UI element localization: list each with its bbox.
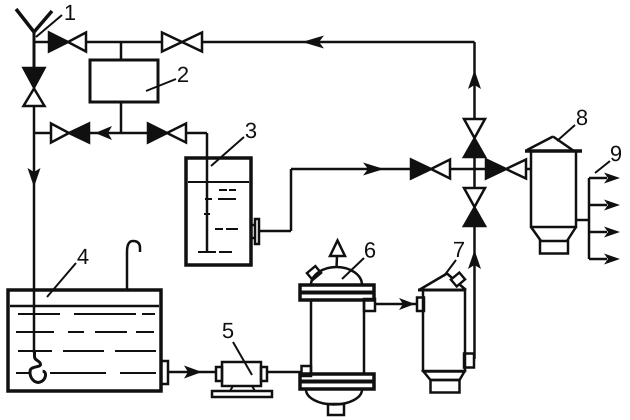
wire left vertical main bbox=[33, 42, 36, 353]
tank 3 bbox=[186, 158, 251, 265]
flow arrow right on middle pipe bbox=[363, 163, 384, 176]
svg-text:8: 8 bbox=[576, 105, 588, 130]
label 3 leader bbox=[211, 137, 244, 166]
svg-text:4: 4 bbox=[77, 244, 89, 269]
valve V7 (solid left half) at cyclone inlet bbox=[486, 160, 526, 179]
wire box2 top stub bbox=[120, 42, 123, 60]
label 2 leader bbox=[146, 79, 176, 91]
svg-text:1: 1 bbox=[64, 0, 76, 25]
wire pump to vessel 6 bbox=[267, 371, 301, 374]
tank 3 dashed level marks bbox=[198, 190, 238, 252]
label 5 leader bbox=[233, 342, 252, 375]
vessel 6 bbox=[300, 241, 375, 416]
wire tank4 to pump bbox=[168, 371, 216, 374]
tank 4 bbox=[8, 290, 161, 391]
flow arrow right to vessel7 bbox=[399, 298, 415, 310]
wire cyclone outlet stub bbox=[576, 219, 589, 222]
wire vessel6 to vessel7 bbox=[375, 303, 417, 306]
flow arrow left on top pipe bbox=[302, 36, 324, 49]
label 4 leader bbox=[47, 263, 76, 297]
svg-text:5: 5 bbox=[222, 318, 234, 343]
wire top header pipe bbox=[34, 41, 475, 44]
flow arrow down on left vertical bbox=[28, 168, 41, 187]
vent stack 1 bbox=[16, 9, 52, 68]
manifold arrow 2 bbox=[589, 200, 620, 211]
valve V4 (solid left half) bbox=[148, 124, 186, 143]
valve V3 (solid right half) bbox=[51, 124, 89, 143]
valve V1 (half-solid) on top pipe bbox=[49, 33, 86, 52]
tank 4 outlet nozzle bbox=[161, 361, 168, 384]
flow arrow up (top of riser) bbox=[468, 70, 481, 89]
svg-text:6: 6 bbox=[364, 238, 376, 263]
wire riser vertical bbox=[473, 42, 476, 359]
flow arrow up (lower riser) bbox=[468, 250, 481, 269]
label 1 leader bbox=[36, 15, 62, 37]
tank 3 outlet nozzle bbox=[251, 219, 259, 244]
svg-text:3: 3 bbox=[245, 118, 257, 143]
pump 5 bbox=[212, 362, 272, 397]
manifold arrow 1 bbox=[589, 173, 620, 184]
box 2 bbox=[90, 60, 158, 102]
valve V8 vertical (solid bottom) bbox=[464, 188, 485, 226]
svg-text:2: 2 bbox=[177, 62, 189, 87]
label 7 leader bbox=[444, 260, 456, 276]
wire box2 bottom stub bbox=[120, 102, 123, 133]
valve V5 (open) on top pipe bbox=[162, 33, 202, 52]
manifold arrow 4 bbox=[589, 254, 620, 265]
svg-text:9: 9 bbox=[610, 141, 622, 166]
label 8 leader bbox=[557, 125, 575, 141]
wire lower-left pipe bbox=[34, 133, 207, 252]
tank 4 dashed level marks bbox=[16, 314, 156, 373]
flow arrow left on lower pipe bbox=[95, 126, 112, 140]
manifold arrow 3 bbox=[589, 227, 620, 238]
cyclone 8 bbox=[525, 137, 582, 254]
wire tank3 to valves pipe bbox=[259, 169, 531, 231]
svg-text:7: 7 bbox=[453, 237, 465, 262]
label 6 leader bbox=[342, 258, 364, 279]
tank 4 cane vent bbox=[127, 241, 140, 290]
flow arrow right to pump bbox=[184, 366, 202, 379]
valve V9 vertical (solid bottom) bbox=[464, 119, 485, 157]
valve V2 vertical (solid top) bbox=[24, 68, 45, 106]
valve V6 (solid left half) bbox=[411, 160, 450, 179]
tank 4 dip pipe hook bbox=[30, 351, 46, 382]
label 9 leader bbox=[595, 161, 610, 173]
manifold 9 header bbox=[588, 178, 591, 259]
vessel 7 bbox=[417, 273, 474, 393]
